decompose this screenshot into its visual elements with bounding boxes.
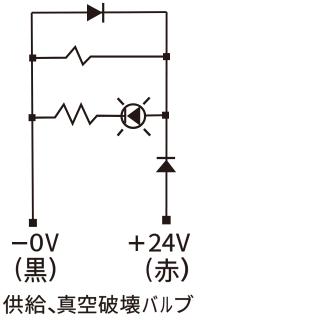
LED rays (4 diagonal light strokes): [118, 98, 151, 136]
terminal: 0V (black lead): [29, 219, 37, 227]
diode D2 (right rail, pointing up): [156, 158, 176, 172]
resistor R1 (upper branch zigzag) with wire: [33, 47, 167, 65]
resistor R2 (lower branch zigzag) with wire to LED: [32, 104, 122, 123]
junction: right rail / R1: [163, 53, 170, 60]
junction: left rail / R2: [29, 114, 36, 121]
wire: right vertical rail (+24V side): [165, 12, 167, 216]
junction: left rail / R1: [29, 55, 36, 62]
wire: left vertical rail (0V side): [32, 13, 33, 220]
terminal: +24V (red lead): [162, 216, 171, 225]
wire: LED to right rail: [145, 114, 166, 116]
junction: right rail / LED branch: [162, 112, 169, 119]
label: (red) lead colour, right terminal: [147, 257, 188, 282]
LED D3 (indicator lamp, cathode left): [121, 104, 145, 128]
label: +24V (net name, right terminal): [129, 234, 190, 252]
label: (black) lead colour, left terminal: [16, 257, 55, 282]
wire: top horizontal rail: [32, 11, 167, 14]
diode D1 (top rail, pointing right): [87, 3, 103, 23]
label: -0V (net name, left terminal): [12, 234, 59, 252]
caption: supply, vacuum-break valve: [3, 295, 193, 314]
